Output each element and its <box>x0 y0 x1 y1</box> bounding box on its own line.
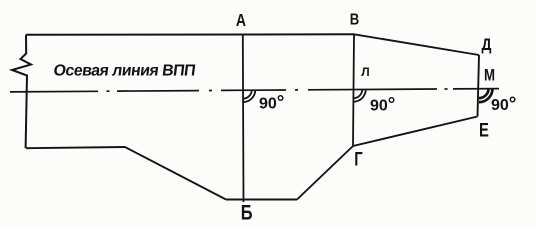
left edge with break symbol <box>12 35 31 148</box>
centerline dot 1 <box>107 90 110 92</box>
centerline dash 3 <box>221 89 286 91</box>
lower bend edge <box>125 147 226 200</box>
svg-text:Осевая линия ВПП: Осевая линия ВПП <box>53 62 197 80</box>
svg-text:Л: Л <box>361 65 369 79</box>
svg-text:90°: 90° <box>491 94 516 115</box>
svg-text:Г: Г <box>354 149 363 170</box>
svg-text:Д: Д <box>482 36 492 55</box>
centerline dot 2 <box>209 90 212 92</box>
centerline dot 4 <box>445 88 448 90</box>
svg-text:М: М <box>484 66 495 85</box>
svg-text:Е: Е <box>479 120 489 141</box>
svg-text:А: А <box>236 10 246 30</box>
angle arc at A (double) <box>243 90 256 103</box>
perpendicular line at A <box>242 35 245 203</box>
centerline dash 2 <box>117 90 199 93</box>
centerline dot 3 <box>295 89 298 91</box>
svg-text:90°: 90° <box>259 93 284 114</box>
edge E-G <box>353 117 478 147</box>
angle arc at M (double, bold) <box>479 89 493 103</box>
angle arc at L (double) <box>353 89 366 102</box>
svg-text:В: В <box>350 11 359 28</box>
edge G to bottom bend <box>297 146 353 200</box>
bottom edge through B(bottom) <box>226 199 297 201</box>
lower-left horizontal edge <box>26 147 125 148</box>
svg-text:Б: Б <box>241 201 253 224</box>
right end edge D-E <box>478 55 480 117</box>
centerline dash 1 <box>10 90 98 93</box>
centerline dash 5 <box>453 88 499 90</box>
runway centerline caption <box>53 62 197 80</box>
svg-text:90°: 90° <box>370 95 395 116</box>
runway top edge A-B <box>26 33 354 36</box>
perpendicular line B-L-G <box>353 34 354 146</box>
centerline dash 4 <box>308 88 437 91</box>
taper edge B-D <box>354 34 479 55</box>
